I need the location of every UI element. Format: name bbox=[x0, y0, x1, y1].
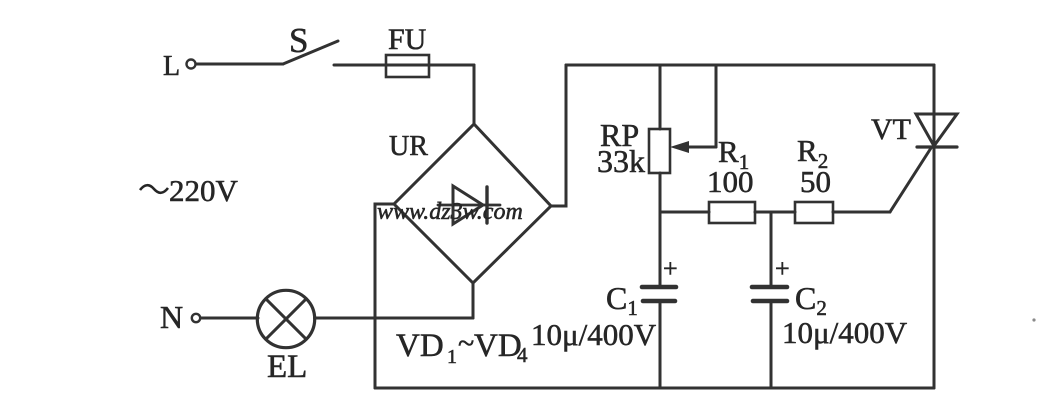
svg-text:33k: 33k bbox=[597, 143, 645, 179]
svg-text:FU: FU bbox=[388, 23, 427, 56]
svg-text:S: S bbox=[289, 21, 308, 60]
svg-text:+: + bbox=[663, 254, 678, 283]
svg-text:1: 1 bbox=[447, 346, 457, 368]
svg-text:VD: VD bbox=[474, 328, 522, 364]
svg-text:UR: UR bbox=[389, 131, 428, 162]
svg-text:50: 50 bbox=[800, 164, 831, 199]
svg-text:N: N bbox=[160, 299, 183, 335]
svg-text:L: L bbox=[163, 51, 180, 82]
svg-text:220V: 220V bbox=[169, 173, 239, 208]
svg-text:10μ/400V: 10μ/400V bbox=[782, 315, 908, 350]
svg-text:~: ~ bbox=[458, 327, 474, 360]
svg-text:+: + bbox=[775, 254, 790, 283]
svg-text:EL: EL bbox=[267, 349, 307, 385]
svg-text:100: 100 bbox=[707, 164, 754, 199]
svg-text:4: 4 bbox=[517, 343, 528, 367]
svg-text:VD: VD bbox=[396, 328, 444, 364]
svg-text:www.dz3w.com: www.dz3w.com bbox=[377, 199, 523, 225]
svg-text:10μ/400V: 10μ/400V bbox=[531, 317, 657, 352]
svg-text:VT: VT bbox=[871, 113, 911, 146]
